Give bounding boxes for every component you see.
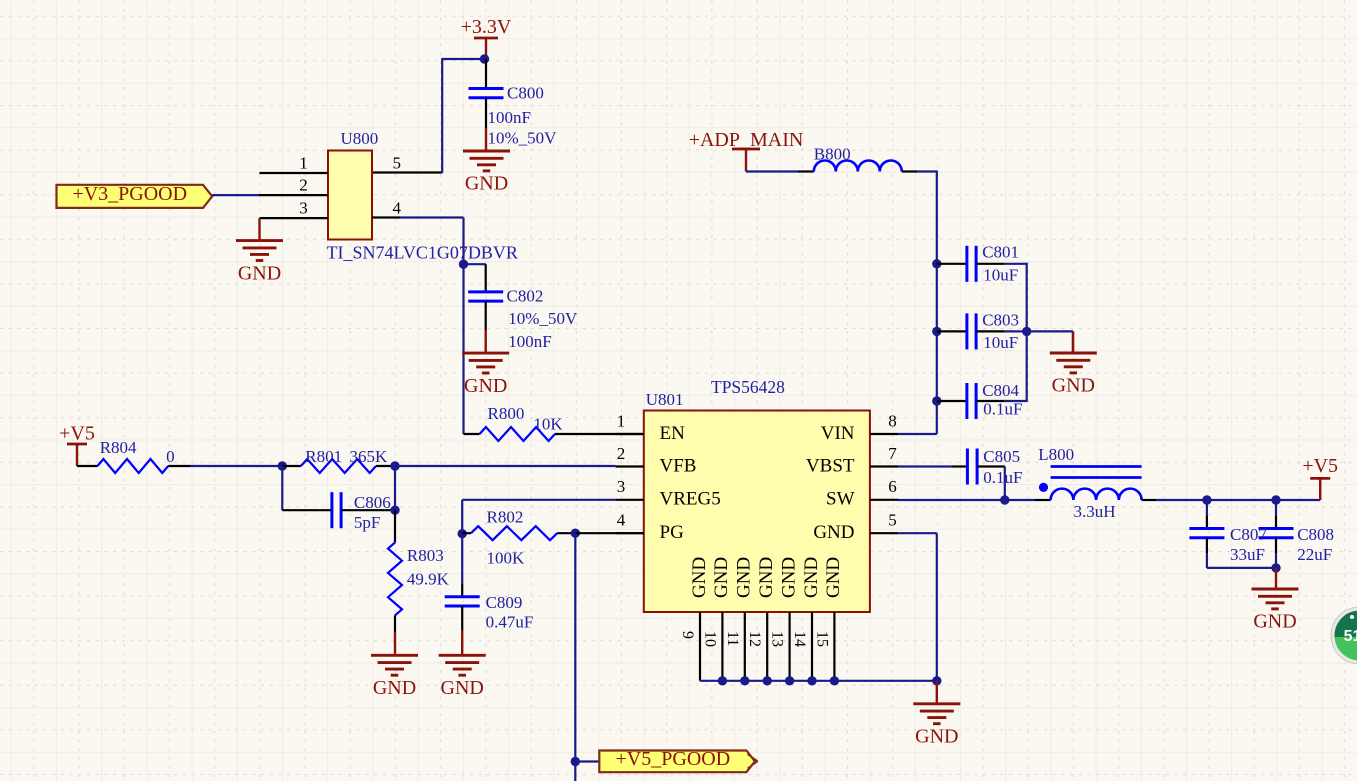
- svg-text:VIN: VIN: [821, 423, 855, 444]
- svg-text:1: 1: [617, 411, 626, 430]
- svg-text:10%_50V: 10%_50V: [488, 128, 558, 147]
- svg-text:GND: GND: [238, 262, 281, 284]
- svg-text:GND: GND: [823, 557, 844, 598]
- svg-text:2: 2: [617, 444, 626, 463]
- svg-text:VFB: VFB: [660, 455, 697, 476]
- svg-text:4: 4: [392, 199, 401, 218]
- svg-text:+V5_PGOOD: +V5_PGOOD: [616, 748, 731, 770]
- svg-text:R804: R804: [100, 438, 137, 457]
- svg-text:49.9K: 49.9K: [407, 569, 450, 588]
- svg-text:3: 3: [299, 199, 308, 218]
- svg-text:3.3uH: 3.3uH: [1074, 502, 1116, 521]
- svg-text:GND: GND: [801, 557, 822, 598]
- svg-text:GND: GND: [813, 522, 854, 543]
- svg-text:B800: B800: [814, 145, 851, 164]
- svg-text:GND: GND: [756, 557, 777, 598]
- svg-text:100K: 100K: [487, 549, 526, 568]
- svg-text:10%_50V: 10%_50V: [508, 309, 578, 328]
- svg-text:15: 15: [813, 631, 830, 647]
- svg-text:C800: C800: [507, 84, 544, 103]
- svg-text:9: 9: [679, 631, 696, 639]
- svg-text:C807: C807: [1230, 525, 1267, 544]
- svg-text:14: 14: [791, 631, 808, 647]
- svg-text:GND: GND: [915, 726, 958, 748]
- svg-text:R800: R800: [488, 404, 525, 423]
- svg-text:0.1uF: 0.1uF: [983, 399, 1022, 418]
- svg-text:10: 10: [701, 631, 718, 647]
- svg-text:C803: C803: [982, 310, 1019, 329]
- svg-text:4: 4: [617, 511, 626, 530]
- svg-text:C809: C809: [486, 593, 523, 612]
- svg-text:8: 8: [888, 411, 897, 430]
- svg-text:100nF: 100nF: [488, 108, 531, 127]
- svg-text:C805: C805: [983, 447, 1020, 466]
- svg-text:365K: 365K: [350, 447, 389, 466]
- svg-text:5: 5: [392, 154, 401, 173]
- svg-text:0.47uF: 0.47uF: [486, 612, 534, 631]
- svg-text:VREG5: VREG5: [660, 489, 721, 510]
- svg-text:GND: GND: [465, 173, 508, 195]
- svg-text:L800: L800: [1038, 445, 1074, 464]
- svg-text:33uF: 33uF: [1230, 545, 1265, 564]
- svg-text:6: 6: [888, 477, 897, 496]
- svg-text:PG: PG: [660, 522, 685, 543]
- svg-text:2: 2: [299, 176, 308, 195]
- svg-text:GND: GND: [373, 677, 416, 699]
- svg-text:R802: R802: [487, 508, 524, 527]
- svg-text:GND: GND: [464, 375, 507, 397]
- svg-text:100nF: 100nF: [508, 332, 551, 351]
- svg-text:3: 3: [617, 477, 626, 496]
- svg-text:C802: C802: [507, 287, 544, 306]
- svg-text:TI_SN74LVC1G07DBVR: TI_SN74LVC1G07DBVR: [327, 242, 518, 262]
- svg-text:GND: GND: [711, 557, 732, 598]
- svg-text:+V5: +V5: [1302, 455, 1338, 477]
- svg-text:10uF: 10uF: [983, 333, 1018, 352]
- svg-text:51: 51: [1344, 628, 1357, 645]
- svg-text:10uF: 10uF: [983, 266, 1018, 285]
- svg-text:GND: GND: [441, 677, 484, 699]
- svg-text:U800: U800: [341, 129, 379, 148]
- svg-text:7: 7: [888, 444, 897, 463]
- svg-text:C804: C804: [982, 381, 1019, 400]
- svg-text:12: 12: [746, 631, 763, 647]
- svg-text:R801: R801: [305, 447, 342, 466]
- svg-text:C801: C801: [982, 243, 1019, 262]
- svg-text:0: 0: [166, 447, 175, 466]
- svg-text:R803: R803: [407, 546, 444, 565]
- svg-text:+V3_PGOOD: +V3_PGOOD: [72, 183, 187, 205]
- svg-text:5: 5: [888, 511, 897, 530]
- svg-text:5pF: 5pF: [354, 513, 380, 532]
- svg-text:11: 11: [724, 631, 741, 646]
- svg-text:+V5: +V5: [59, 423, 95, 445]
- svg-text:C808: C808: [1297, 525, 1334, 544]
- svg-text:VBST: VBST: [806, 455, 855, 476]
- svg-text:GND: GND: [1052, 375, 1095, 397]
- svg-text:+3.3V: +3.3V: [461, 16, 512, 38]
- svg-text:13: 13: [769, 631, 786, 647]
- svg-text:SW: SW: [826, 489, 855, 510]
- svg-text:C806: C806: [354, 493, 391, 512]
- svg-text:GND: GND: [778, 557, 799, 598]
- svg-text:0.1uF: 0.1uF: [983, 468, 1022, 487]
- svg-text:10K: 10K: [533, 415, 563, 434]
- svg-text:1: 1: [299, 154, 308, 173]
- svg-text:U801: U801: [646, 390, 684, 409]
- svg-text:GND: GND: [734, 557, 755, 598]
- svg-text:GND: GND: [689, 557, 710, 598]
- svg-text:22uF: 22uF: [1297, 545, 1332, 564]
- svg-text:TPS56428: TPS56428: [711, 377, 785, 397]
- svg-text:+ADP_MAIN: +ADP_MAIN: [689, 129, 804, 151]
- svg-text:EN: EN: [660, 423, 686, 444]
- svg-text:GND: GND: [1253, 611, 1296, 633]
